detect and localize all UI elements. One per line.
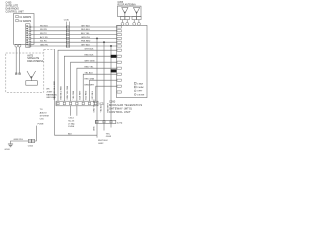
- wire W2: [31, 30, 117, 32]
- svg-text:GRN YEL BLU: GRN YEL BLU: [93, 99, 95, 113]
- wire nested N5: [83, 74, 117, 101]
- svg-text:C535: C535: [64, 20, 70, 22]
- node U1 pin tiny labels: [26, 25, 28, 46]
- node TB2 to-audio text: [38, 109, 49, 125]
- svg-text:GRY BLU: GRY BLU: [92, 90, 94, 99]
- svg-text:BLU RED: BLU RED: [86, 90, 88, 99]
- svg-text:PNK RED: PNK RED: [81, 41, 91, 43]
- svg-text:RED BLU: RED BLU: [81, 29, 91, 31]
- svg-text:G552: G552: [98, 143, 104, 145]
- connector C3 inline column: [64, 20, 70, 48]
- node terminal blob 2: [111, 69, 117, 72]
- node U1 pin strip: [26, 24, 30, 48]
- wire nested N2: [64, 56, 117, 101]
- wire W1: [31, 26, 117, 28]
- connector C4 bottom strip: [56, 101, 104, 106]
- svg-text:2 HVAC: 2 HVAC: [137, 86, 144, 89]
- svg-text:ANT3: ANT3: [27, 54, 34, 57]
- svg-text:MODULAR TELEMATICS: MODULAR TELEMATICS: [109, 103, 142, 107]
- node vertical wire labels above C4: [54, 80, 94, 99]
- svg-text:AUDIO: AUDIO: [40, 111, 47, 114]
- svg-text:No.23: No.23: [68, 121, 75, 123]
- antenna A1 dashed enclosure: [6, 53, 44, 92]
- svg-text:JOINT: JOINT: [46, 91, 53, 93]
- wire drop C: [110, 46, 112, 128]
- node junction dot B: [103, 41, 105, 43]
- svg-text:GRN YEL: GRN YEL: [14, 139, 24, 141]
- antenna A2 element 1: [122, 8, 129, 17]
- svg-text:G553: G553: [106, 136, 112, 138]
- antenna A2 element 2: [133, 8, 140, 17]
- svg-text:IG1 FD: IG1 FD: [40, 41, 47, 43]
- svg-text:(7.5A): (7.5A): [68, 122, 74, 125]
- svg-text:NVI SIG: NVI SIG: [40, 25, 48, 27]
- svg-text:GATEWAY (MTG): GATEWAY (MTG): [109, 106, 132, 110]
- node wire labels right group: [81, 25, 91, 46]
- wire fuse drop 1: [70, 106, 72, 116]
- node antenna unit title: [118, 2, 137, 7]
- node U2 title text: [109, 100, 142, 114]
- wire W5: [31, 41, 117, 43]
- node wire labels left group: [40, 25, 48, 46]
- svg-text:C260: C260: [109, 100, 116, 104]
- node junction dot A: [96, 37, 98, 39]
- svg-text:GRN: GRN: [93, 126, 95, 131]
- svg-text:GRY BLK: GRY BLK: [81, 25, 91, 27]
- control unit U1 satellite DAB radio box: [14, 14, 35, 45]
- control unit U2 MTG box: [117, 25, 148, 97]
- svg-text:DAB ANTENNA: DAB ANTENNA: [27, 60, 44, 63]
- connector C5 small box: [95, 120, 122, 124]
- node vertical labels above C5: [93, 99, 109, 113]
- wire shield dashed link: [44, 48, 55, 50]
- svg-text:RED BLU RED: RED BLU RED: [61, 85, 63, 99]
- node U1 pin squares: [29, 26, 31, 47]
- wire shield ground drop: [55, 49, 98, 135]
- wire shield dashed stub: [43, 49, 45, 53]
- svg-text:C514: C514: [68, 118, 74, 120]
- wire corner tail: [96, 135, 98, 137]
- node U2 internal option rows: [134, 82, 145, 96]
- svg-text:FUSE: FUSE: [38, 123, 44, 125]
- node junction dot C: [110, 45, 112, 47]
- svg-text:WHT GRN: WHT GRN: [85, 61, 95, 63]
- svg-text:4 NONE: 4 NONE: [137, 94, 145, 96]
- wire ground run: [11, 126, 37, 144]
- node antenna lead terminals: [15, 73, 20, 75]
- svg-text:ACC FD: ACC FD: [40, 36, 48, 39]
- svg-text:GND FD: GND FD: [40, 44, 48, 46]
- wire W3: [31, 34, 117, 36]
- ground G1: [8, 144, 13, 147]
- node C2 option row 2: [16, 19, 32, 23]
- wire W6: [31, 45, 117, 47]
- svg-text:(C75): (C75): [117, 122, 123, 124]
- node drop A junction label: [98, 140, 108, 145]
- node antenna base squares: [120, 17, 141, 20]
- svg-text:SATELLITE: SATELLITE: [27, 57, 39, 60]
- node C1 option row 1: [16, 15, 32, 19]
- node nested wire labels: [85, 49, 95, 87]
- svg-text:GRN YEL: GRN YEL: [81, 37, 91, 39]
- node drop B end label: [106, 133, 112, 138]
- svg-text:TO: TO: [40, 109, 43, 111]
- svg-text:GRN YEL GRN: GRN YEL GRN: [67, 85, 69, 99]
- antenna A2 box: [118, 6, 142, 16]
- svg-text:GRY BLK: GRY BLK: [85, 49, 95, 51]
- svg-text:WHT BLK: WHT BLK: [98, 140, 108, 142]
- svg-text:CONTROL UNIT: CONTROL UNIT: [6, 10, 25, 13]
- svg-text:BRN WHT: BRN WHT: [85, 85, 95, 87]
- wire nested N6: [90, 80, 118, 101]
- svg-text:G503: G503: [5, 149, 11, 150]
- node SDARS unit title text: [6, 1, 25, 13]
- wire nested N1: [58, 50, 117, 101]
- wire nested N7: [96, 86, 117, 101]
- wire nested N3: [71, 62, 117, 101]
- svg-text:BLK WHT: BLK WHT: [79, 90, 81, 100]
- svg-text:YEL BLU: YEL BLU: [100, 104, 102, 113]
- svg-text:C552: C552: [28, 145, 34, 147]
- svg-text:NVI TX: NVI TX: [40, 33, 47, 35]
- antenna A1 symbol: [26, 71, 38, 85]
- svg-text:NVI RX: NVI RX: [40, 29, 48, 31]
- svg-text:1 NAVI: 1 NAVI: [137, 82, 143, 85]
- svg-text:FUSE: FUSE: [68, 126, 74, 128]
- svg-text:GRY BLK: GRY BLK: [81, 44, 91, 46]
- svg-text:C1 RAMPS: C1 RAMPS: [19, 16, 31, 19]
- node antenna label text: [27, 54, 44, 63]
- svg-text:YEL BLK: YEL BLK: [85, 73, 94, 75]
- node vertical label below C5: [93, 126, 95, 131]
- svg-text:SYSTEM: SYSTEM: [40, 115, 49, 117]
- svg-text:YEL GRN: YEL GRN: [73, 90, 75, 99]
- wire W4: [31, 37, 117, 39]
- wire drop A: [96, 38, 98, 135]
- node antenna input circles: [121, 22, 140, 25]
- svg-text:RED YEL: RED YEL: [85, 67, 95, 69]
- wire fuse drop 2: [76, 106, 78, 116]
- svg-text:BLU YEL: BLU YEL: [81, 33, 90, 35]
- svg-text:RED GRN: RED GRN: [85, 79, 95, 81]
- node fuse text block: [68, 118, 75, 128]
- svg-text:WHT RED BLU RED: WHT RED BLU RED: [54, 80, 56, 99]
- node terminal blob 1: [111, 55, 117, 58]
- node TB1 harness ground text: [46, 89, 57, 100]
- svg-text:RED BLK: RED BLK: [85, 55, 95, 57]
- svg-text:C455: C455: [118, 2, 124, 4]
- wire nested N4: [77, 68, 117, 101]
- svg-text:C2 RAMPS: C2 RAMPS: [19, 20, 31, 23]
- node U1 lower pin circles: [15, 44, 21, 47]
- svg-text:3 HFT: 3 HFT: [137, 91, 143, 93]
- wire drop B: [103, 42, 105, 130]
- svg-text:CONTROL UNIT: CONTROL UNIT: [109, 110, 131, 114]
- wire antenna stems: [123, 20, 139, 23]
- node U2 pin squares column: [117, 26, 121, 93]
- svg-text:BLK: BLK: [68, 133, 73, 135]
- wire antenna leads: [16, 47, 19, 74]
- connector C6 inline pair: [28, 139, 34, 142]
